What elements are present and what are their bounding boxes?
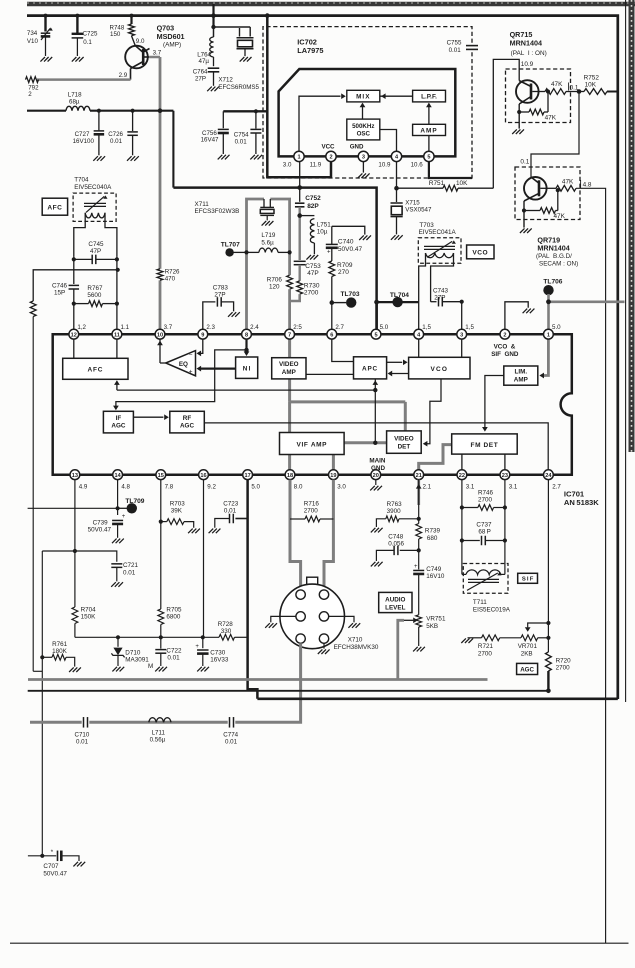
pin IC701-17 (243, 470, 253, 480)
pin IC701-11 (112, 329, 122, 339)
wire IC701 pin2 to ground (505, 302, 528, 330)
capacitor C723 0.01 (215, 501, 248, 528)
svg-text:16: 16 (200, 473, 206, 479)
label 4.8 (581, 180, 592, 189)
svg-text:0.1: 0.1 (520, 159, 529, 166)
label box SIF (518, 573, 538, 583)
svg-text:330: 330 (221, 628, 232, 635)
transistor QR715 MRN1404 (516, 80, 545, 128)
label VCO & SIF GND (491, 344, 519, 359)
block 500KHz OSC (347, 119, 380, 140)
svg-text:C730: C730 (210, 649, 226, 656)
wire thick bus y698.8 (257, 697, 617, 700)
resistor R730 2700 (297, 265, 320, 297)
transformer T711 coil (462, 570, 505, 590)
svg-text:MIX: MIX (356, 94, 370, 101)
label 3.0 pin 19 (337, 484, 346, 491)
svg-text:10: 10 (157, 332, 163, 338)
wire shielded pin21 stub with arrow (416, 480, 422, 505)
wire VIDEO AMP to APC (306, 373, 354, 375)
svg-text:+: + (327, 249, 331, 255)
pin X710 mid-left (296, 612, 305, 621)
svg-text:IF: IF (116, 415, 122, 422)
svg-text:DET: DET (398, 444, 411, 451)
wire pins 12 11 to AFC (74, 334, 117, 358)
svg-text:RF: RF (183, 415, 192, 422)
svg-text:MA3091: MA3091 (125, 656, 149, 663)
wire VCC branch y111.3 (223, 110, 267, 112)
wire IC702 pin1 to MIX (299, 93, 346, 151)
svg-text:5.0: 5.0 (251, 484, 260, 491)
capacitor C739 50V0.47 (88, 514, 126, 538)
svg-text:5.0: 5.0 (380, 324, 389, 331)
wire bus y690.8 (28, 689, 551, 694)
svg-text:R720: R720 (556, 657, 572, 664)
svg-text:3.0: 3.0 (283, 162, 292, 169)
svg-text:2.4: 2.4 (250, 324, 259, 331)
wire pin17 thick column (248, 480, 258, 699)
ground C726 (127, 156, 139, 161)
pin X710 bottom-left (296, 634, 305, 643)
svg-text:C721: C721 (123, 562, 139, 569)
svg-text:L751: L751 (317, 221, 332, 228)
ground QR715 emitter (512, 129, 524, 134)
svg-text:VSX0547: VSX0547 (405, 207, 432, 214)
svg-text:R704: R704 (81, 606, 97, 613)
resistor R703 39K (159, 480, 194, 609)
label 11.9 (310, 162, 322, 169)
block L.P.F. (413, 90, 446, 102)
IC701 block outline with notch (53, 334, 572, 475)
label 3.7 pin 10 (164, 324, 173, 331)
svg-text:TL706: TL706 (543, 279, 562, 286)
pin IC701-7 (285, 329, 295, 339)
pin IC701-21 (414, 470, 424, 480)
ground C727 (93, 156, 105, 161)
svg-text:3900: 3900 (387, 508, 402, 515)
label box AGC (517, 663, 538, 674)
wire X710 mid-left to ground (271, 616, 296, 622)
svg-text:EIV5EC040A: EIV5EC040A (74, 184, 112, 191)
capacitor C726 0.01 (108, 109, 138, 156)
transformer T703 dashed box (418, 238, 461, 264)
transformer T704 coil (84, 195, 108, 217)
wire IF filter line y110.7 (27, 111, 173, 188)
wire shielded pin19 to X710 (324, 480, 333, 590)
svg-text:C722: C722 (166, 647, 182, 654)
svg-text:50V0.47: 50V0.47 (338, 246, 363, 253)
resistor R763 3900 (376, 501, 418, 527)
capacitor C721 0.01 (111, 562, 138, 581)
svg-text:2: 2 (28, 91, 32, 98)
svg-text:3.1: 3.1 (509, 484, 518, 491)
svg-text:8.0: 8.0 (294, 484, 303, 491)
pin IC702-5 (424, 151, 434, 161)
svg-text:C783: C783 (213, 285, 229, 292)
resistor R704 150K (72, 606, 96, 637)
ground C722 (155, 667, 167, 672)
label 1,5 pin 3 (465, 324, 474, 331)
label 1,2 pin 12 (77, 324, 86, 331)
svg-text:C737: C737 (476, 521, 492, 528)
ground R763 (371, 528, 383, 533)
pin IC701-20 (371, 470, 381, 480)
svg-text:AUDIO: AUDIO (385, 596, 405, 603)
capacitor C722 0.01 (155, 635, 182, 666)
inductor L751 10u (300, 216, 332, 255)
wire VCO to APC (388, 371, 409, 377)
label 3.1 pin 23 (509, 484, 518, 491)
wire pin8 node to IF AGC (113, 348, 249, 411)
svg-text:150: 150 (110, 31, 121, 38)
label QR719 MRN1404 (PAL B.G.D/ SECAM : ON) (536, 235, 578, 267)
svg-text:0.01: 0.01 (167, 655, 180, 662)
svg-text:2.7: 2.7 (335, 324, 344, 331)
ground X710 mid-right (348, 623, 360, 628)
svg-text:EIV5EC041A: EIV5EC041A (419, 229, 457, 236)
svg-text:1: 1 (297, 155, 300, 161)
wire pin10 from EQ (157, 334, 166, 363)
resistor R767 5600 (72, 285, 119, 307)
svg-text:R767: R767 (87, 285, 103, 292)
svg-text:MRN1404: MRN1404 (537, 244, 569, 253)
wire shielded audio bus riser to VR751 (398, 620, 404, 679)
svg-text:EFCS6R0MS5: EFCS6R0MS5 (218, 84, 259, 91)
node junctions component taps on rail (44, 14, 134, 18)
capacitor C707 50V0.47 (43, 851, 79, 878)
ground X715 (391, 235, 403, 240)
pin IC701-14 (113, 470, 123, 480)
capacitor C710 0.01 in series (75, 717, 90, 746)
capacitor C734 16V10 (27, 16, 53, 56)
label 9.2 pin 16 (207, 484, 216, 491)
svg-text:0.01: 0.01 (225, 739, 238, 746)
svg-text:7.8: 7.8 (165, 484, 174, 491)
label 2.1 pin 21 (423, 484, 432, 491)
svg-text:2:5: 2:5 (293, 324, 302, 331)
svg-text:9.2: 9.2 (207, 484, 216, 491)
label 2.4 pin 8 (250, 324, 259, 331)
svg-text:23: 23 (502, 473, 508, 479)
wire pin4 to VCO (418, 334, 420, 357)
svg-text:TL703: TL703 (341, 291, 360, 298)
label 1,5 pin 4 (422, 324, 431, 331)
svg-text:VIDEO: VIDEO (279, 361, 299, 368)
block IF AGC (103, 411, 133, 433)
svg-text:10K: 10K (585, 82, 597, 89)
wire AMP to L.P.F. (426, 103, 432, 125)
svg-text:OSC: OSC (357, 130, 371, 137)
label 5.0 pin 1 (552, 324, 561, 331)
label MAIN GND (369, 458, 386, 472)
svg-text:R721: R721 (478, 643, 494, 650)
wire pin21 column (417, 480, 421, 524)
label box VCO right of T703 (467, 245, 494, 259)
wire LIM AMP to FM DET (482, 376, 504, 432)
wire T704 right leg (105, 213, 117, 257)
wire C752 chain down (297, 207, 302, 260)
svg-text:10.9: 10.9 (378, 162, 391, 169)
svg-text:21: 21 (416, 473, 422, 479)
ground C721 (111, 582, 123, 587)
wire shielded VIF AMP to VIDEO DET (344, 441, 387, 444)
svg-text:C725: C725 (83, 31, 98, 38)
potentiometer VR701 2KB (500, 635, 549, 658)
svg-text:47P: 47P (307, 270, 319, 277)
svg-text:50V0.47: 50V0.47 (88, 527, 112, 534)
svg-text:3.7: 3.7 (164, 324, 173, 331)
svg-text:X712: X712 (218, 77, 233, 84)
wire TL706 down to pin 1 (546, 294, 551, 330)
svg-text:+: + (414, 564, 418, 570)
svg-text:120: 120 (269, 284, 280, 291)
IC702 block outline (279, 69, 456, 156)
label 5.0 pin 17 (251, 484, 260, 491)
wire shielded ground bus y679.5 (28, 678, 488, 681)
svg-text:C745: C745 (88, 241, 104, 248)
capacitor C730 16V33 (195, 635, 229, 666)
svg-text:1,5: 1,5 (465, 324, 474, 331)
wire shielded pin1 to LIM AMP (539, 334, 548, 378)
svg-text:5.6µ: 5.6µ (261, 239, 274, 246)
svg-text:C723: C723 (223, 501, 239, 508)
svg-text:47K: 47K (551, 81, 563, 88)
label 3.1 pin 22 (466, 484, 475, 491)
svg-text:EQ: EQ (179, 361, 188, 368)
resistor R706 120 in series (267, 275, 293, 290)
resistor 47K QR715 feedback (517, 89, 557, 121)
wire T704 left leg (74, 213, 85, 257)
svg-text:2700: 2700 (304, 508, 319, 515)
test point TL703 (330, 291, 360, 308)
svg-text:LEVEL: LEVEL (385, 604, 405, 611)
svg-text:3: 3 (460, 332, 463, 338)
block FM DET (452, 434, 518, 454)
resistor 47K QR715 base (545, 81, 579, 94)
svg-text:C740: C740 (338, 239, 354, 246)
ground VR751 (413, 647, 425, 652)
resistor 47K QR719 feedback (522, 188, 566, 220)
svg-text:15: 15 (158, 473, 164, 479)
svg-text:4.8: 4.8 (583, 182, 592, 189)
wire R739 to C748 node (417, 539, 421, 569)
label 4.8 pin 14 (121, 484, 130, 491)
svg-text:R763: R763 (387, 501, 403, 508)
svg-text:AN 5183K: AN 5183K (564, 498, 599, 507)
svg-text:D710: D710 (125, 649, 141, 656)
label box AUDIO LEVEL (379, 592, 412, 612)
label T703 EIV5EC041A (419, 222, 457, 236)
wire T703 left leg to pin4 node (419, 253, 426, 302)
svg-text:−: − (189, 352, 193, 359)
block AFC (63, 358, 128, 379)
svg-text:C748: C748 (388, 533, 404, 540)
wire x213.5 rail to L764 node (214, 16, 251, 37)
wire pin6 node chain (332, 226, 365, 330)
capacitor C752 82P (295, 195, 321, 210)
svg-text:16V100: 16V100 (73, 138, 95, 145)
test point TL709 (118, 498, 145, 513)
ground C725 (72, 57, 84, 62)
pin IC701-9 (198, 329, 208, 339)
label VCC (321, 143, 335, 150)
ground D710 (112, 667, 124, 672)
label 7.8 pin 15 (165, 484, 174, 491)
wire pin16 column (203, 480, 205, 638)
wire TL709 line y508.3 (28, 506, 120, 510)
pin IC702-1 (294, 151, 304, 161)
wire pin23 column (503, 480, 507, 570)
svg-text:500KHz: 500KHz (352, 123, 374, 130)
capacitor C725 0.1 (72, 16, 98, 56)
wire FM DET outputs to pins 22 23 (462, 454, 505, 470)
svg-text:MAIN: MAIN (369, 458, 386, 465)
resistor 47K QR719 base (556, 178, 576, 191)
ground C748 (371, 562, 383, 567)
page border top hatched (27, 3, 635, 4)
svg-text:11.9: 11.9 (310, 162, 322, 169)
svg-text:0.056: 0.056 (388, 540, 404, 547)
svg-text:8: 8 (245, 332, 248, 338)
wire pin3 column up (461, 302, 463, 330)
svg-text:2: 2 (329, 155, 332, 161)
wire VR701 wiper (525, 623, 549, 632)
svg-text:APC: APC (362, 365, 378, 372)
svg-text:2700: 2700 (556, 665, 571, 672)
svg-text:R751: R751 (429, 180, 445, 187)
QR715 dashed box (506, 69, 571, 123)
ground X712 (240, 57, 252, 62)
svg-text:18: 18 (287, 473, 293, 479)
inductor L764 47u (197, 37, 213, 65)
label 10.9 QR715 (521, 61, 534, 68)
svg-text:3.7: 3.7 (153, 49, 162, 56)
wire IC702 pin3 to ground (362, 162, 364, 173)
svg-text:5: 5 (374, 332, 377, 338)
resistor 792 (R792) (26, 77, 40, 99)
svg-text:FM DET: FM DET (471, 442, 499, 449)
wire Q703 emitter shielded to left (37, 78, 131, 81)
label 10.9 pin4 (378, 162, 391, 169)
svg-text:1,2: 1,2 (77, 324, 86, 331)
svg-text:0.01: 0.01 (110, 138, 123, 145)
resistor left-edge on AFC line (30, 301, 42, 671)
svg-text:3: 3 (362, 155, 365, 161)
wire pin13 column (73, 480, 77, 607)
label 5.0 pin 5 (380, 324, 389, 331)
svg-text:EFCS3F02W3B: EFCS3F02W3B (195, 208, 240, 215)
node 0.1 junction (577, 89, 582, 94)
block VIDEO AMP (272, 358, 306, 379)
svg-text:EFCH38MVK30: EFCH38MVK30 (334, 644, 379, 651)
diode D710 MA3091 (111, 635, 153, 670)
block VCO (409, 357, 470, 379)
svg-text:5600: 5600 (87, 292, 102, 299)
pin IC701-1 (544, 329, 554, 339)
ground pin20 MAIN GND (370, 486, 382, 491)
label 10.6 pin5 (411, 162, 424, 169)
svg-text:R730: R730 (304, 282, 320, 289)
capacitor C756 16V47 (201, 111, 229, 154)
block AMP (413, 124, 446, 135)
page border right hatched (629, 0, 635, 452)
pin IC701-2 (500, 329, 510, 339)
svg-text:0.1: 0.1 (83, 39, 92, 46)
wire pin3 to VCO (461, 334, 463, 357)
svg-text:2.7: 2.7 (552, 484, 561, 491)
svg-text:M: M (148, 663, 153, 670)
resistor R748 150 (110, 16, 136, 46)
node junction C752 chain (297, 185, 302, 190)
wire pin4 column up (418, 302, 420, 330)
ground X710 bottom-right (318, 649, 330, 654)
block APC (354, 357, 387, 379)
ground L751 (306, 255, 318, 260)
pin IC701-3 (457, 329, 467, 339)
wire pin14 column (117, 480, 119, 515)
svg-text:TL707: TL707 (221, 242, 240, 249)
pin IC701-18 (285, 470, 295, 480)
pin IC701-23 (500, 470, 510, 480)
svg-text:T711: T711 (473, 599, 487, 606)
wire shielded Q703 output down to IC701 pin 10 (149, 57, 160, 330)
svg-text:X715: X715 (405, 199, 420, 206)
svg-text:68µ: 68µ (69, 98, 80, 105)
wire IC702 pin5 bypass to C755 (429, 162, 472, 178)
pin IC702-4 (391, 151, 401, 161)
capacitor C740 50V0.47 (326, 239, 363, 256)
svg-text:2.3: 2.3 (206, 324, 215, 331)
wire 4.8 node to page edge vertical (576, 188, 606, 943)
pin IC701-19 (329, 470, 339, 480)
svg-text:T703: T703 (419, 222, 434, 229)
svg-text:39K: 39K (171, 508, 183, 515)
wire AFC line y269.8 (33, 268, 120, 301)
wire X710 mid-right to ground (329, 616, 354, 622)
ground C734 (40, 57, 52, 62)
wire border stub x213.5 top (212, 4, 214, 27)
svg-text:0,01: 0,01 (224, 508, 237, 515)
svg-text:C774: C774 (223, 731, 238, 738)
capacitor C764 27P (193, 57, 220, 86)
svg-text:10.9: 10.9 (521, 61, 534, 68)
svg-text:V10: V10 (27, 38, 39, 45)
wire pin20 to ground (375, 480, 377, 485)
potentiometer VR751 5KB (404, 615, 446, 646)
svg-text:C710: C710 (75, 731, 90, 738)
label 2.9 at Q703 emitter (119, 72, 128, 79)
crystal X711 (260, 199, 274, 220)
wire VCC feed x267.3 to IC702 pin 2 (265, 13, 331, 177)
label 3.0 (283, 162, 292, 169)
svg-text:C753: C753 (305, 263, 321, 270)
svg-text:C752: C752 (305, 195, 321, 202)
wire VCO to VIDEO DET (423, 379, 441, 447)
label T711 EIS5EC019A (473, 599, 511, 613)
svg-text:4.8: 4.8 (121, 484, 130, 491)
svg-text:T704: T704 (74, 177, 89, 184)
svg-text:C749: C749 (426, 566, 442, 573)
svg-text:1,5: 1,5 (422, 324, 431, 331)
wire pin8 to N1 (244, 334, 250, 356)
block LIM AMP (504, 366, 538, 385)
wire AMP to IC702 pin5 (428, 136, 430, 152)
capacitor C754 0.01 (234, 109, 262, 154)
svg-text:5.0: 5.0 (552, 324, 561, 331)
resistor R716 2700 (290, 501, 333, 522)
svg-text:VCO: VCO (472, 250, 488, 257)
label 2.3 pin 9 (206, 324, 215, 331)
